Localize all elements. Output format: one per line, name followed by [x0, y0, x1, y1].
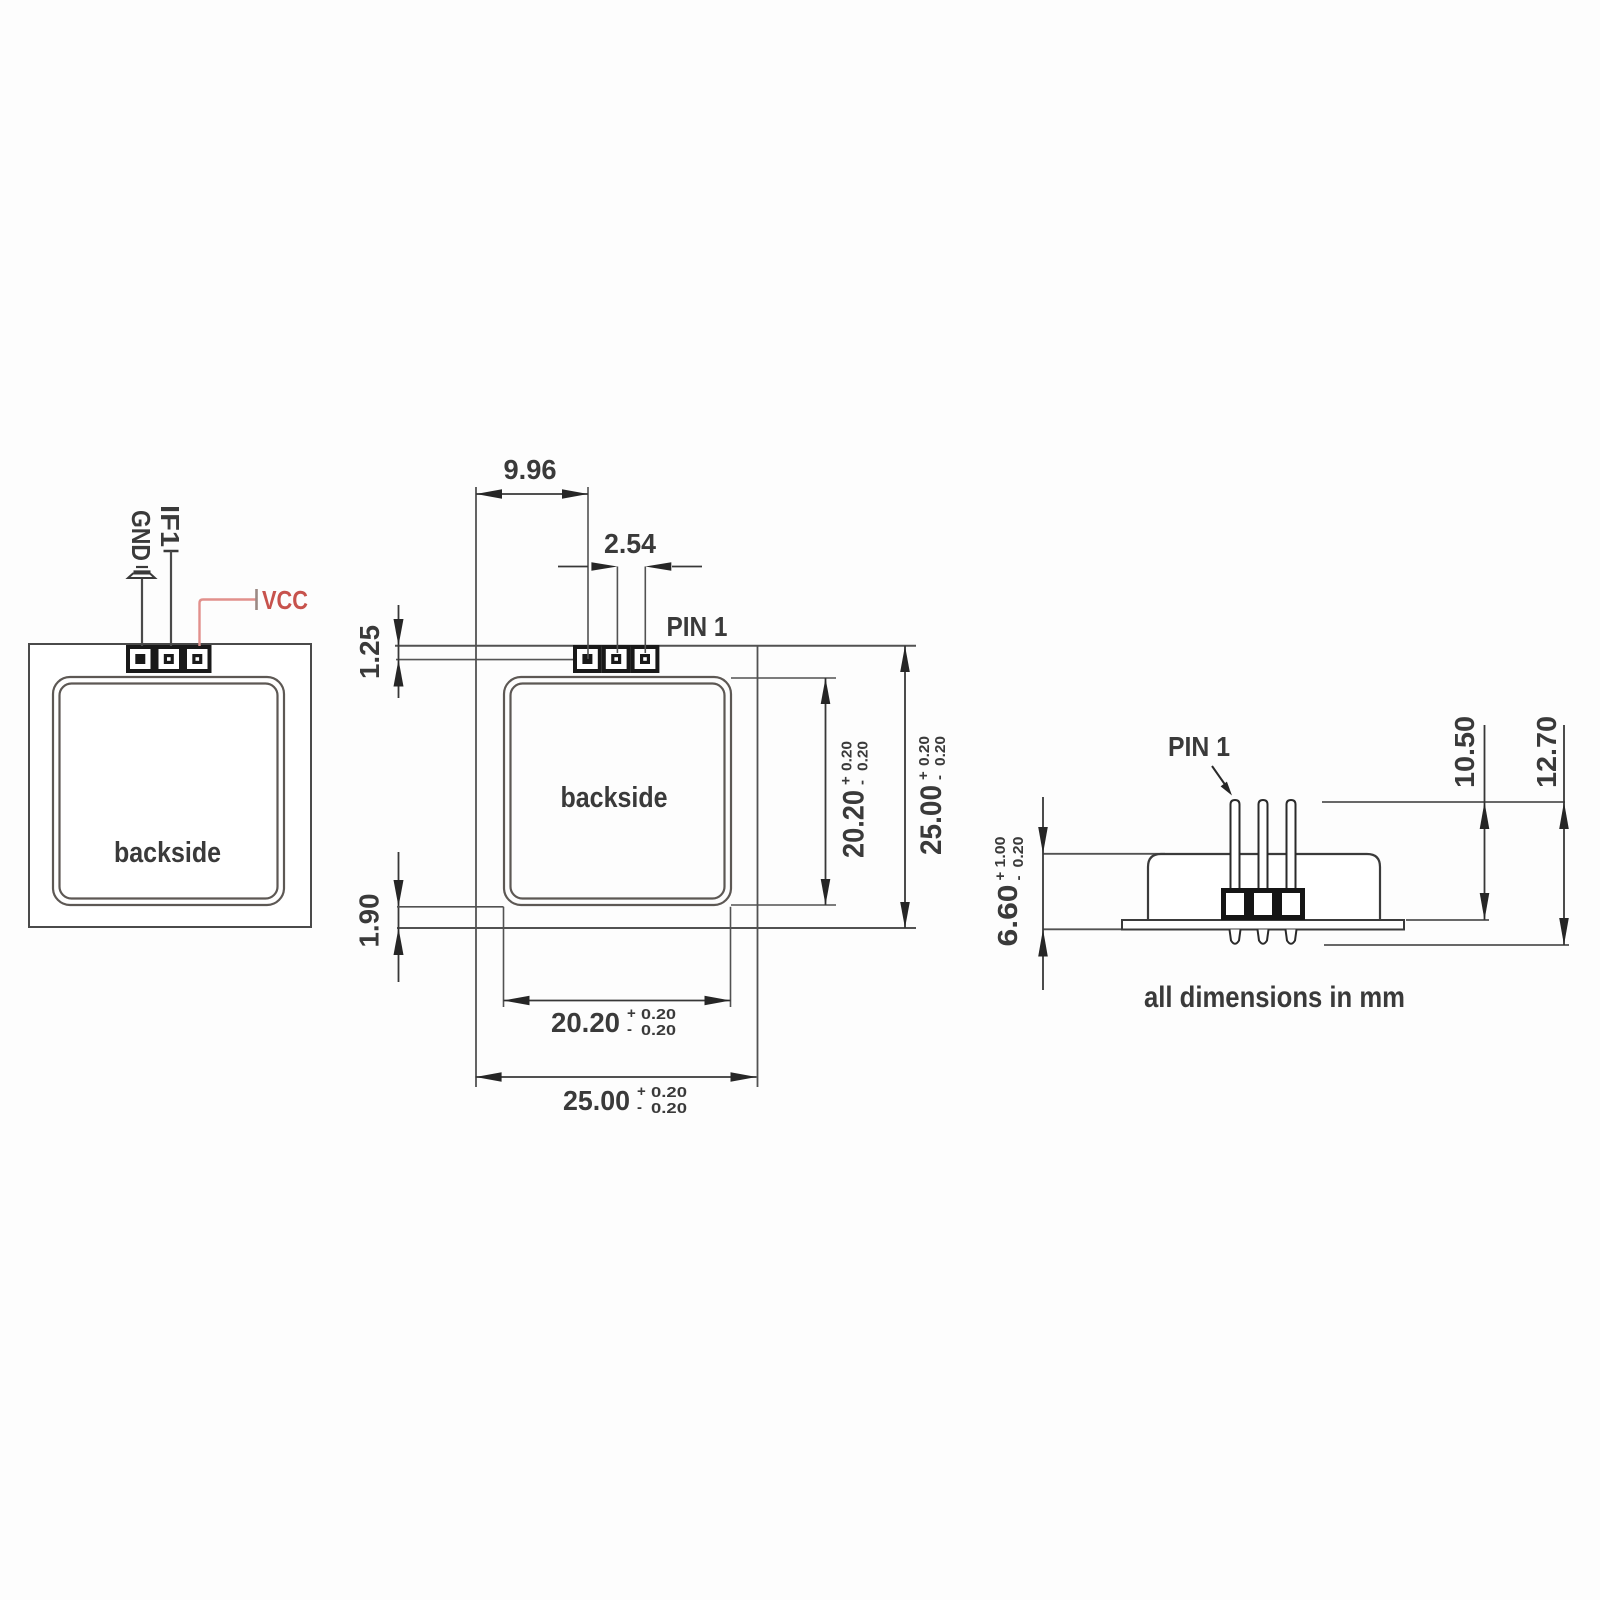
svg-text:-: - [854, 780, 871, 785]
svg-text:PIN 1: PIN 1 [1168, 731, 1230, 762]
svg-text:IF1: IF1 [155, 505, 185, 547]
svg-text:backside: backside [561, 782, 668, 814]
connector J2 pin 3 cell (middle view) [575, 647, 600, 671]
pin 2 lower tip (side view) [1258, 930, 1269, 944]
dimension 9.96 [476, 454, 588, 659]
svg-text:6.60: 6.60 [992, 885, 1023, 947]
connector J2 pin 1 cell (middle view) [633, 647, 658, 671]
pin tick VCC [255, 589, 258, 610]
connector J1 pin 3 cell (left view) [128, 647, 153, 671]
pin 2 contact pad (middle) [611, 654, 621, 664]
svg-text:-: - [627, 1021, 632, 1038]
net label IF1 [155, 505, 185, 547]
svg-text:0.20: 0.20 [651, 1084, 687, 1101]
svg-text:0.20: 0.20 [855, 741, 872, 771]
extension line antenna left going down [503, 907, 505, 1007]
svg-text:+: + [627, 1005, 636, 1022]
leader line PIN 1 (side view) [1212, 766, 1226, 786]
dimension 2.54 [558, 528, 702, 653]
dimension 25.00 right (vertical) [900, 646, 949, 928]
svg-text:+: + [838, 776, 855, 785]
pin 3 contact pad (middle) [582, 654, 592, 664]
svg-text:0.20: 0.20 [1010, 837, 1027, 868]
svg-text:0.20: 0.20 [839, 741, 856, 771]
svg-text:1.25: 1.25 [354, 625, 385, 679]
svg-text:-: - [637, 1099, 642, 1116]
wire GND [141, 579, 143, 647]
svg-text:12.70: 12.70 [1531, 716, 1562, 788]
pin tick IF1 [164, 550, 179, 553]
connector J2 pin 2 cell (middle view) [604, 647, 629, 671]
dimension 20.20 bottom [504, 996, 731, 1039]
svg-text:0.20: 0.20 [651, 1100, 687, 1117]
pin 2 contact pad [164, 654, 174, 664]
antenna coil L1 outer turn (left view) [53, 677, 284, 905]
svg-text:9.96: 9.96 [504, 454, 557, 485]
pin 1 contact pad (middle) [640, 654, 650, 664]
pin 2 upper (side view) [1259, 800, 1268, 888]
header block cell 1 (side view) [1224, 891, 1247, 918]
dimension 25.00 bottom [476, 1072, 757, 1117]
dimension 12.70 [1531, 716, 1569, 945]
header block cell 3 (side view) [1280, 891, 1303, 918]
svg-text:20.20: 20.20 [551, 1007, 620, 1038]
pin-center extension line [396, 659, 584, 661]
svg-text:0.20: 0.20 [932, 736, 949, 766]
module M1 outline (backside, left view) [29, 644, 311, 927]
svg-text:+: + [915, 771, 932, 780]
ground symbol [128, 567, 155, 578]
svg-text:1.90: 1.90 [354, 894, 385, 948]
svg-text:1.00: 1.00 [992, 837, 1009, 868]
antenna coil L1 inner turn (left view) [60, 684, 278, 899]
module M2 left edge with extension [475, 487, 477, 1087]
svg-text:2.54: 2.54 [604, 528, 656, 559]
svg-text:-: - [1010, 876, 1027, 881]
extension line lower pin tips (12.70) [1324, 944, 1569, 946]
svg-text:GND: GND [126, 510, 156, 561]
module M2 top edge with extension lines [395, 645, 916, 647]
svg-text:PIN 1: PIN 1 [667, 611, 728, 642]
svg-text:25.00: 25.00 [563, 1085, 630, 1116]
extension line base bottom (6.60) [1043, 928, 1122, 930]
svg-text:0.20: 0.20 [641, 1022, 676, 1039]
svg-text:-: - [931, 775, 948, 780]
pin 1 lower tip (side view) [1230, 930, 1241, 944]
header block cell 2 (side view) [1252, 891, 1275, 918]
svg-text:VCC: VCC [262, 585, 308, 615]
pin 1 contact pad [192, 654, 202, 664]
module M2 bottom edge with extension lines [397, 927, 916, 929]
module M2 right edge with extension [757, 646, 759, 1087]
extension line plate top right (10.50) [1406, 919, 1489, 921]
dimension 1.90 [354, 852, 404, 982]
pin 3 contact pad [135, 654, 145, 664]
connector J1 pin 2 cell (left view) [157, 647, 182, 671]
extension line antenna right going down [730, 907, 732, 1007]
base plate (side view) [1122, 920, 1404, 930]
pin 3 lower tip (side view) [1286, 930, 1297, 944]
net label GND [126, 510, 156, 561]
module body (side view) [1148, 854, 1380, 920]
svg-text:backside: backside [114, 837, 221, 869]
extension line antenna bottom-right [731, 904, 836, 906]
wire VCC (red) [200, 600, 257, 647]
extension line pin tops [1322, 801, 1565, 803]
extension line antenna bottom-left [397, 906, 504, 908]
antenna coil L2 outer turn (middle view) [504, 677, 731, 905]
antenna coil L2 inner turn (middle view) [511, 684, 725, 899]
wire IF1 [170, 551, 172, 646]
svg-text:+: + [637, 1083, 646, 1100]
svg-text:25.00: 25.00 [915, 785, 948, 855]
svg-text:all dimensions in mm: all dimensions in mm [1144, 981, 1405, 1014]
dimension 10.50 [1449, 716, 1489, 920]
connector J1 pin 1 cell (left view) [185, 647, 210, 671]
dimension 20.20 right (vertical) [821, 678, 872, 905]
svg-text:+: + [992, 872, 1009, 881]
svg-text:10.50: 10.50 [1449, 716, 1480, 788]
extension line body top (6.60) [1043, 853, 1165, 855]
svg-text:0.20: 0.20 [916, 736, 933, 766]
dimension 6.60 [992, 797, 1048, 990]
svg-text:20.20: 20.20 [838, 790, 871, 858]
pin 1 upper (side view) [1231, 800, 1240, 888]
extension line antenna top-right [731, 677, 836, 679]
dimension 1.25 [354, 605, 404, 698]
svg-text:0.20: 0.20 [641, 1006, 676, 1023]
pin 3 upper (side view) [1287, 800, 1296, 888]
